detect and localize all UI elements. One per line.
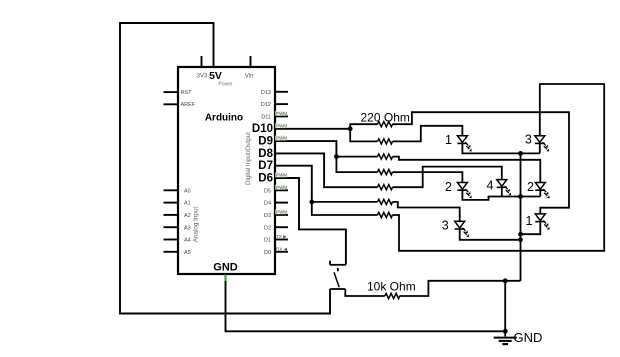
wire LED2 mid-left cathode <box>462 190 540 200</box>
label D3 <box>264 213 271 219</box>
svg-text:GND: GND <box>213 262 238 274</box>
svg-text:3: 3 <box>525 133 532 147</box>
svg-text:D13: D13 <box>261 90 271 96</box>
wire LED3 bottom-left cathode <box>460 229 521 240</box>
LED D4 center (pip 4) <box>497 180 511 196</box>
svg-text:220 Ohm: 220 Ohm <box>361 110 410 124</box>
pin A5 stub <box>164 251 179 253</box>
wire R6 to LED3 bottom-left anode <box>393 202 460 221</box>
label LED pip 1 bottom-right <box>526 214 533 228</box>
svg-text:TX ▶: TX ▶ <box>276 234 287 239</box>
label D6 <box>258 172 273 184</box>
wire switch to 10k resistor <box>345 289 385 296</box>
svg-text:A2: A2 <box>184 213 191 219</box>
label LED pip 3 bottom-left <box>442 219 449 233</box>
label LED pip 3 top-right <box>525 133 532 147</box>
label Arduino <box>205 112 243 123</box>
svg-text:Analog Input: Analog Input <box>192 207 199 243</box>
svg-text:A4: A4 <box>184 238 191 244</box>
label Analog Input (rotated) <box>192 207 199 243</box>
wire D8 net to resistor R5 <box>275 153 378 187</box>
label D7 <box>258 160 273 172</box>
pin D2 stub <box>275 226 288 228</box>
svg-text:D1: D1 <box>264 238 271 244</box>
label D5 <box>264 188 271 194</box>
svg-text:Power: Power <box>218 81 233 87</box>
wire D10 net to resistors R1 R2 <box>275 124 378 141</box>
svg-text:D6: D6 <box>258 172 273 184</box>
resistor R8 10k Ohm <box>385 293 400 298</box>
svg-text:5V: 5V <box>209 70 222 82</box>
label D1 <box>264 238 271 244</box>
pin A2 stub <box>164 214 179 216</box>
svg-text:PWM: PWM <box>276 209 287 214</box>
node ground tap <box>503 278 508 283</box>
svg-text:PWM: PWM <box>276 111 287 116</box>
pushbutton S1 <box>330 261 346 289</box>
svg-text:Arduino: Arduino <box>205 112 243 123</box>
wire LED1 bottom-right cathode <box>521 222 541 235</box>
pin D11 stub <box>275 115 288 117</box>
pin A4 stub <box>164 239 179 241</box>
node cathode join mid <box>518 194 523 199</box>
svg-text:D11: D11 <box>261 115 271 121</box>
svg-text:D7: D7 <box>258 160 273 172</box>
ground symbol <box>494 331 517 344</box>
label RST <box>181 90 193 96</box>
wire R5 to LED4 center anode <box>393 167 502 188</box>
svg-text:GND: GND <box>514 330 543 345</box>
LED D7 bottom-right (pip 1) <box>535 214 549 230</box>
pin AREF stub <box>164 103 179 105</box>
label 220 Ohm <box>361 110 410 124</box>
wire R1 to LED3 top-right feed corner (long path right side) <box>393 112 570 214</box>
svg-text:A3: A3 <box>184 225 191 231</box>
pin 3V3 stub <box>201 56 203 67</box>
svg-text:Vin: Vin <box>245 73 254 79</box>
svg-text:D9: D9 <box>258 136 273 148</box>
svg-text:2: 2 <box>445 180 452 194</box>
label 3V3 <box>197 73 208 79</box>
resistor R6 220 Ohm <box>378 199 393 204</box>
svg-text:A1: A1 <box>184 201 191 207</box>
label Digital Input/Output (rotated) <box>245 132 252 185</box>
node D10 junction <box>348 126 353 131</box>
label D8 <box>258 148 273 160</box>
label PWM tag D3 <box>275 209 287 214</box>
svg-text:3V3: 3V3 <box>197 73 208 79</box>
pin Vin stub <box>250 56 252 67</box>
resistor R1 220 Ohm <box>378 122 393 127</box>
pin A1 stub <box>164 202 179 204</box>
LED D1 top-left (pip 1) <box>457 136 471 152</box>
pin D13 stub <box>275 91 288 93</box>
wire LED2 mid-right cathode <box>539 190 541 196</box>
wire GND pin to ground bus <box>226 274 506 331</box>
LED D2 mid-left (pip 2) <box>457 183 471 199</box>
arduino U1 body <box>178 67 275 274</box>
wire LED4 cathode <box>501 187 503 196</box>
label PWM tag D9 <box>275 136 287 141</box>
svg-text:AREF: AREF <box>181 102 196 108</box>
label LED pip 1 top-left <box>445 133 452 147</box>
wire D6 to pushbutton <box>275 178 346 265</box>
LED D6 bottom-left (pip 3) <box>455 221 469 237</box>
label D9 <box>258 136 273 148</box>
label D0 <box>264 250 271 256</box>
node D7 junction <box>309 200 314 205</box>
label 10k Ohm <box>367 280 416 294</box>
node cathode join upper <box>518 232 523 237</box>
svg-text:4: 4 <box>486 178 493 192</box>
svg-text:Digital Input/Output: Digital Input/Output <box>245 132 252 185</box>
label GND (ground net) <box>514 330 543 345</box>
pin A0 stub <box>164 189 179 191</box>
wire D9 net to resistors R3 R4 <box>275 141 378 172</box>
label A0 <box>184 188 191 194</box>
label 5V <box>209 70 222 82</box>
svg-text:D10: D10 <box>252 123 273 135</box>
node cathode join top <box>518 151 523 156</box>
label PWM tag D6 <box>275 172 287 177</box>
label PWM tag D11 <box>275 111 287 116</box>
svg-text:D5: D5 <box>264 188 271 194</box>
pin D1 stub <box>275 239 288 241</box>
pin D3 stub <box>275 214 288 216</box>
label D2 <box>264 225 271 231</box>
wire R3 to LED2 mid-right anode <box>393 157 541 183</box>
svg-text:PWM: PWM <box>276 173 287 178</box>
svg-text:D3: D3 <box>264 213 271 219</box>
label RX tag D0 <box>276 246 288 251</box>
label D4 <box>264 201 271 207</box>
node cathode join lower-left <box>518 237 523 242</box>
pin A3 stub <box>164 226 179 228</box>
svg-text:10k Ohm: 10k Ohm <box>367 280 416 294</box>
node ground bus junction <box>503 329 508 334</box>
pin D0 stub <box>275 251 288 253</box>
resistor R4 220 Ohm <box>378 170 393 175</box>
resistor R7 220 Ohm <box>378 212 393 217</box>
label A4 <box>184 238 191 244</box>
wire LED3 top-right cathode <box>539 143 541 153</box>
wire 10k to ground bus <box>400 281 521 296</box>
wire ground drop <box>504 281 506 332</box>
svg-text:1: 1 <box>445 133 452 147</box>
label A1 <box>184 201 191 207</box>
label Vin <box>245 73 254 79</box>
label D12 <box>261 102 271 108</box>
svg-text:A5: A5 <box>184 250 191 256</box>
svg-text:PWM: PWM <box>276 123 287 128</box>
label D13 <box>261 90 271 96</box>
label A2 <box>184 213 191 219</box>
wire R2 to LED1 top-left anode <box>393 126 463 142</box>
pin D5 stub <box>275 189 288 191</box>
label GND bottom pin <box>213 262 238 274</box>
svg-text:1: 1 <box>526 214 533 228</box>
svg-text:PWM: PWM <box>276 136 287 141</box>
label LED pip 2 mid-left <box>445 180 452 194</box>
svg-text:D4: D4 <box>264 201 271 207</box>
label Power <box>218 81 233 87</box>
label AREF <box>181 102 196 108</box>
svg-text:PWM: PWM <box>276 185 287 190</box>
svg-text:D8: D8 <box>258 148 273 160</box>
label D10 <box>252 123 273 135</box>
svg-text:RX ◀: RX ◀ <box>276 246 288 251</box>
label LED pip 4 center <box>486 178 493 192</box>
wire cathode rail <box>520 153 522 280</box>
label PWM tag D5 <box>275 185 287 190</box>
wire LED1 top-left cathode <box>462 143 539 153</box>
pin D12 stub <box>275 103 288 105</box>
resistor R5 220 Ohm <box>378 185 393 190</box>
wire R7 around right side to LED3 top-right anode <box>393 84 605 251</box>
pin RST stub <box>164 91 179 93</box>
label PWM tag D10 <box>275 123 287 128</box>
svg-text:3: 3 <box>442 219 449 233</box>
resistor R2 220 Ohm <box>378 139 393 144</box>
wire R4 to LED2 mid-left anode <box>393 172 463 182</box>
label TX tag D1 <box>276 234 287 239</box>
label D11 <box>261 115 271 121</box>
wire 5V rail from 5V pin to switch bottom-left leg <box>120 23 330 314</box>
label LED pip 2 mid-right <box>527 180 534 194</box>
wire D7 net to resistors R6 R7 <box>275 166 378 215</box>
svg-text:A0: A0 <box>184 188 191 194</box>
label A5 <box>184 250 191 256</box>
svg-text:D0: D0 <box>264 250 271 256</box>
svg-text:2: 2 <box>527 180 534 194</box>
svg-text:D12: D12 <box>261 102 271 108</box>
node D9 junction <box>334 154 339 159</box>
svg-text:RST: RST <box>181 90 193 96</box>
svg-text:D2: D2 <box>264 225 271 231</box>
resistor R3 220 Ohm <box>378 154 393 159</box>
LED D5 mid-right (pip 2) <box>535 183 549 199</box>
pin D4 stub <box>275 202 288 204</box>
LED D3 top-right (pip 3) <box>535 136 549 152</box>
label A3 <box>184 225 191 231</box>
